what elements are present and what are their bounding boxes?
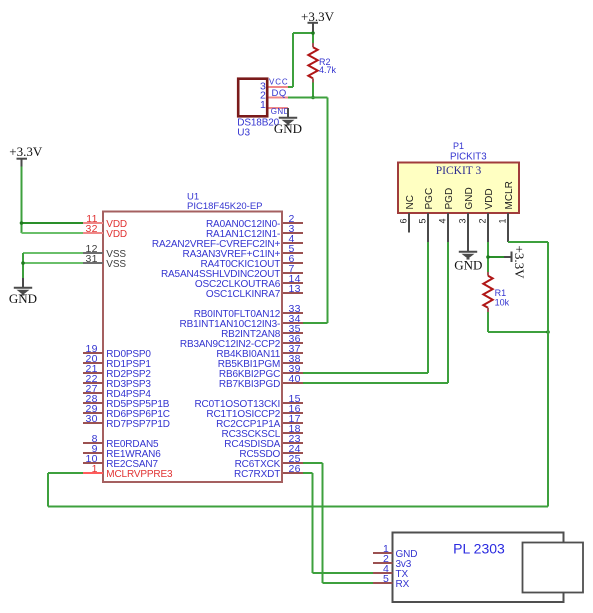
svg-text:MCLR: MCLR — [504, 181, 515, 209]
svg-text:6: 6 — [399, 218, 409, 223]
junction VDD/+3.3V — [486, 255, 490, 259]
svg-text:3: 3 — [458, 218, 468, 223]
U1 pin 7 RA5AN4SSHLVDINC2OUT — [161, 263, 303, 280]
power symbol +3.3V (top) — [301, 9, 335, 33]
P1 pin 3 GND — [458, 187, 476, 242]
svg-text:32: 32 — [86, 223, 98, 235]
U1 pin 10 RE2CSAN7 — [83, 453, 158, 470]
connector P1 PICKIT3 body — [398, 163, 519, 214]
U1 pin 17 RC2CCP1P1A — [216, 413, 303, 430]
svg-text:GND: GND — [271, 107, 290, 116]
wire PICKIT3 VDD down to R1 — [487, 242, 489, 272]
junction +3.3V/R2 — [311, 31, 315, 35]
wire +3.3V to DS18B20 VCC horizontal — [293, 32, 313, 34]
wire U1 pin 31 VSS joins — [23, 262, 83, 264]
wire R2 bottom to DQ net — [312, 83, 314, 98]
U1 pin 24 RC5SDO — [239, 443, 303, 460]
U1 pin 5 RA3AN3VREF+C1IN+ — [183, 243, 303, 260]
wire MCLR left vertical — [47, 473, 49, 507]
U1 pin 22 RD3PSP3 — [83, 373, 151, 390]
wire PGD to U1 pin 40 — [303, 382, 448, 384]
U1 pin 15 RC0T1OSOT13CKI — [194, 393, 303, 410]
svg-text:40: 40 — [289, 373, 301, 385]
P1 pin 5 PGC — [418, 188, 436, 242]
svg-text:1: 1 — [498, 218, 508, 223]
svg-text:VDD: VDD — [106, 229, 127, 240]
wire TX to PL2303 RX — [323, 582, 374, 584]
U1 pin 8 RE0RDAN5 — [83, 433, 159, 450]
U1 pin 33 RB0INT0FLT0AN12 — [194, 303, 303, 320]
svg-text:RC7RXDT: RC7RXDT — [234, 469, 280, 480]
wire MCLR vertical right side — [547, 242, 549, 507]
svg-text:PGD: PGD — [444, 188, 455, 210]
P1 pin 6 NC — [399, 195, 417, 232]
U1 pin 31 VSS — [83, 253, 126, 270]
U1 pin 29 RD6PSP6P1C — [83, 403, 170, 420]
svg-text:26: 26 — [289, 463, 301, 475]
wire RX to PL2303 TX — [313, 572, 374, 574]
U1 pin 27 RD4PSP4 — [83, 383, 151, 400]
junction R1/MCLR — [546, 330, 550, 334]
U1 pin 38 RB5KBI1PGM — [218, 353, 303, 370]
svg-text:1: 1 — [92, 463, 98, 475]
U1 pin 14 OSC2CLKOUTRA6 — [195, 273, 303, 290]
PL2303 pin 1 GND — [373, 543, 417, 560]
module PL 2303 USB connector box — [523, 543, 584, 593]
svg-text:PL 2303: PL 2303 — [453, 541, 505, 557]
power symbol +3.3V (right rotated) — [504, 246, 527, 280]
junction VSS — [21, 261, 25, 265]
wire U1 pin 12 VSS to GND — [23, 252, 83, 254]
U1 pin 32 VDD — [83, 223, 127, 240]
U3 pin 1 GND — [260, 99, 290, 116]
svg-text:5: 5 — [383, 573, 389, 585]
U1 pin 25 RC6TXCK — [235, 453, 303, 470]
module PL 2303 body — [393, 533, 564, 603]
U1 pin 20 RD1PSP1 — [83, 353, 151, 370]
IC U3 DS18B20 body — [238, 79, 267, 117]
svg-text:PGC: PGC — [424, 188, 435, 210]
svg-text:P1: P1 — [453, 141, 464, 151]
wire DQ vertical to pin 34 — [327, 98, 329, 324]
U1 pin 37 RB4KBI0AN11 — [216, 343, 303, 360]
PL2303 pin 4 TX — [373, 563, 408, 580]
junction R2/DQ — [311, 96, 315, 100]
svg-text:MCLRVPPRE3: MCLRVPPRE3 — [106, 469, 173, 480]
U1 pin 9 RE1WRAN6 — [83, 443, 161, 460]
svg-text:PICKIT 3: PICKIT 3 — [436, 165, 482, 177]
wire PGD vertical — [447, 242, 449, 383]
wire PICKIT3 MCLR right — [508, 241, 548, 243]
P1 pin 1 MCLR — [498, 181, 516, 242]
junction at +3.3V/VDD — [20, 221, 24, 225]
svg-text:RB7KBI3PGD: RB7KBI3PGD — [219, 379, 280, 390]
svg-text:PICKIT3: PICKIT3 — [450, 152, 487, 163]
svg-text:+3.3V: +3.3V — [512, 246, 527, 280]
svg-text:31: 31 — [86, 253, 98, 265]
svg-text:30: 30 — [86, 413, 98, 425]
svg-text:VDD: VDD — [484, 188, 495, 209]
svg-text:NC: NC — [405, 195, 416, 209]
ground symbol (PICKIT3) — [454, 242, 482, 272]
svg-text:10k: 10k — [495, 297, 510, 307]
U1 pin 3 RA1AN1C12IN1- — [206, 223, 303, 240]
U1 pin 2 RA0AN0C12IN0- — [206, 213, 303, 230]
svg-text:GND: GND — [274, 121, 302, 136]
wire MCLR to U1 pin 1 — [48, 472, 83, 474]
wire U1 pin 26 RX out — [303, 472, 313, 474]
U3 pin 2 DQ — [260, 88, 288, 102]
wire TX vertical — [322, 463, 324, 583]
wire vertical VSS down — [22, 253, 24, 279]
U1 pin 1 MCLRVPPRE3 — [83, 463, 173, 480]
U1 pin 40 RB7KBI3PGD — [219, 373, 303, 390]
U1 pin 11 VDD — [83, 213, 127, 230]
wire to U1 pin 32 VDD — [22, 232, 84, 234]
svg-text:+3.3V: +3.3V — [301, 9, 335, 24]
U1 pin 16 RC1T1OSICCP2 — [206, 403, 303, 420]
U3 pin 3 VCC — [260, 78, 289, 93]
U1 pin 4 RA2AN2VREF-CVREFC2IN+ — [152, 233, 303, 250]
wire RX vertical — [312, 473, 314, 573]
wire +3.3V left vertical — [21, 167, 23, 234]
svg-text:GND: GND — [9, 291, 37, 306]
wire MCLR bottom horizontal — [48, 506, 548, 508]
svg-text:U3: U3 — [237, 128, 250, 139]
IC U1 PIC18F45K20-EP body — [103, 212, 282, 483]
U1 pin 34 RB1INT1AN10C12IN3- — [180, 313, 303, 330]
svg-text:OSC1CLKINRA7: OSC1CLKINRA7 — [206, 289, 281, 300]
wire to U1 pin 11 VDD — [22, 222, 84, 224]
U1 pin 6 RA4T0CKIC1OUT — [200, 253, 303, 270]
wire U1 pin 25 TX out — [303, 462, 323, 464]
svg-text:PIC18F45K20-EP: PIC18F45K20-EP — [187, 201, 263, 212]
wire R1 bottom — [487, 312, 489, 332]
svg-text:13: 13 — [289, 283, 301, 295]
wire PGC to U1 pin 39 — [303, 372, 428, 374]
PL2303 pin 2 3v3 — [373, 553, 412, 570]
resistor R2 4.7k — [308, 43, 317, 83]
wire +3.3V tap — [488, 256, 504, 258]
U1 pin 19 RD0PSP0 — [83, 343, 151, 360]
U1 pin 21 RD2PSP2 — [83, 363, 151, 380]
wire R1 to MCLR vertical — [488, 331, 548, 333]
svg-text:VCC: VCC — [269, 78, 289, 87]
wire into U1 pin 34 — [303, 322, 328, 324]
U1 pin 30 RD7PSP7P1D — [83, 413, 170, 430]
resistor R1 10k — [483, 272, 492, 312]
ground symbol (left) — [9, 278, 37, 306]
U1 pin 12 VSS — [83, 243, 126, 260]
P1 pin 2 VDD — [478, 188, 496, 242]
P1 pin 4 PGD — [438, 188, 456, 242]
U1 pin 18 RC3SCKSCL — [222, 423, 303, 440]
svg-text:2: 2 — [478, 218, 488, 223]
svg-text:DQ: DQ — [272, 88, 287, 99]
PL2303 pin 5 RX — [373, 573, 410, 590]
svg-text:RX: RX — [396, 579, 410, 590]
U1 pin 35 RB2INT2AN8 — [221, 323, 303, 340]
U1 pin 36 RB3AN9C12IN2-CCP2 — [180, 333, 303, 350]
wire VCC vertical — [292, 33, 294, 87]
U1 pin 39 RB6KBI2PGC — [219, 363, 303, 380]
svg-text:4.7k: 4.7k — [319, 65, 337, 75]
svg-text:GND: GND — [454, 257, 482, 272]
U1 pin 28 RD5PSP5P1B — [83, 393, 170, 410]
U1 pin 26 RC7RXDT — [234, 463, 303, 480]
wire +3.3V to R2 top — [312, 32, 314, 44]
svg-text:5: 5 — [418, 218, 428, 223]
wire PGC vertical — [427, 242, 429, 373]
svg-text:GND: GND — [464, 187, 475, 209]
U1 pin 23 RC4SDISDA — [224, 433, 303, 450]
svg-text:1: 1 — [260, 99, 266, 111]
power symbol +3.3V (left) — [9, 144, 43, 167]
U1 pin 13 OSC1CLKINRA7 — [206, 283, 303, 300]
svg-text:+3.3V: +3.3V — [9, 144, 43, 159]
svg-text:4: 4 — [438, 218, 448, 223]
wire VCC stub join — [288, 86, 293, 88]
ground symbol (DS18B20) — [274, 108, 302, 136]
wire DQ horizontal — [288, 97, 328, 99]
svg-text:VSS: VSS — [106, 259, 126, 270]
svg-text:RD7PSP7P1D: RD7PSP7P1D — [106, 419, 170, 430]
